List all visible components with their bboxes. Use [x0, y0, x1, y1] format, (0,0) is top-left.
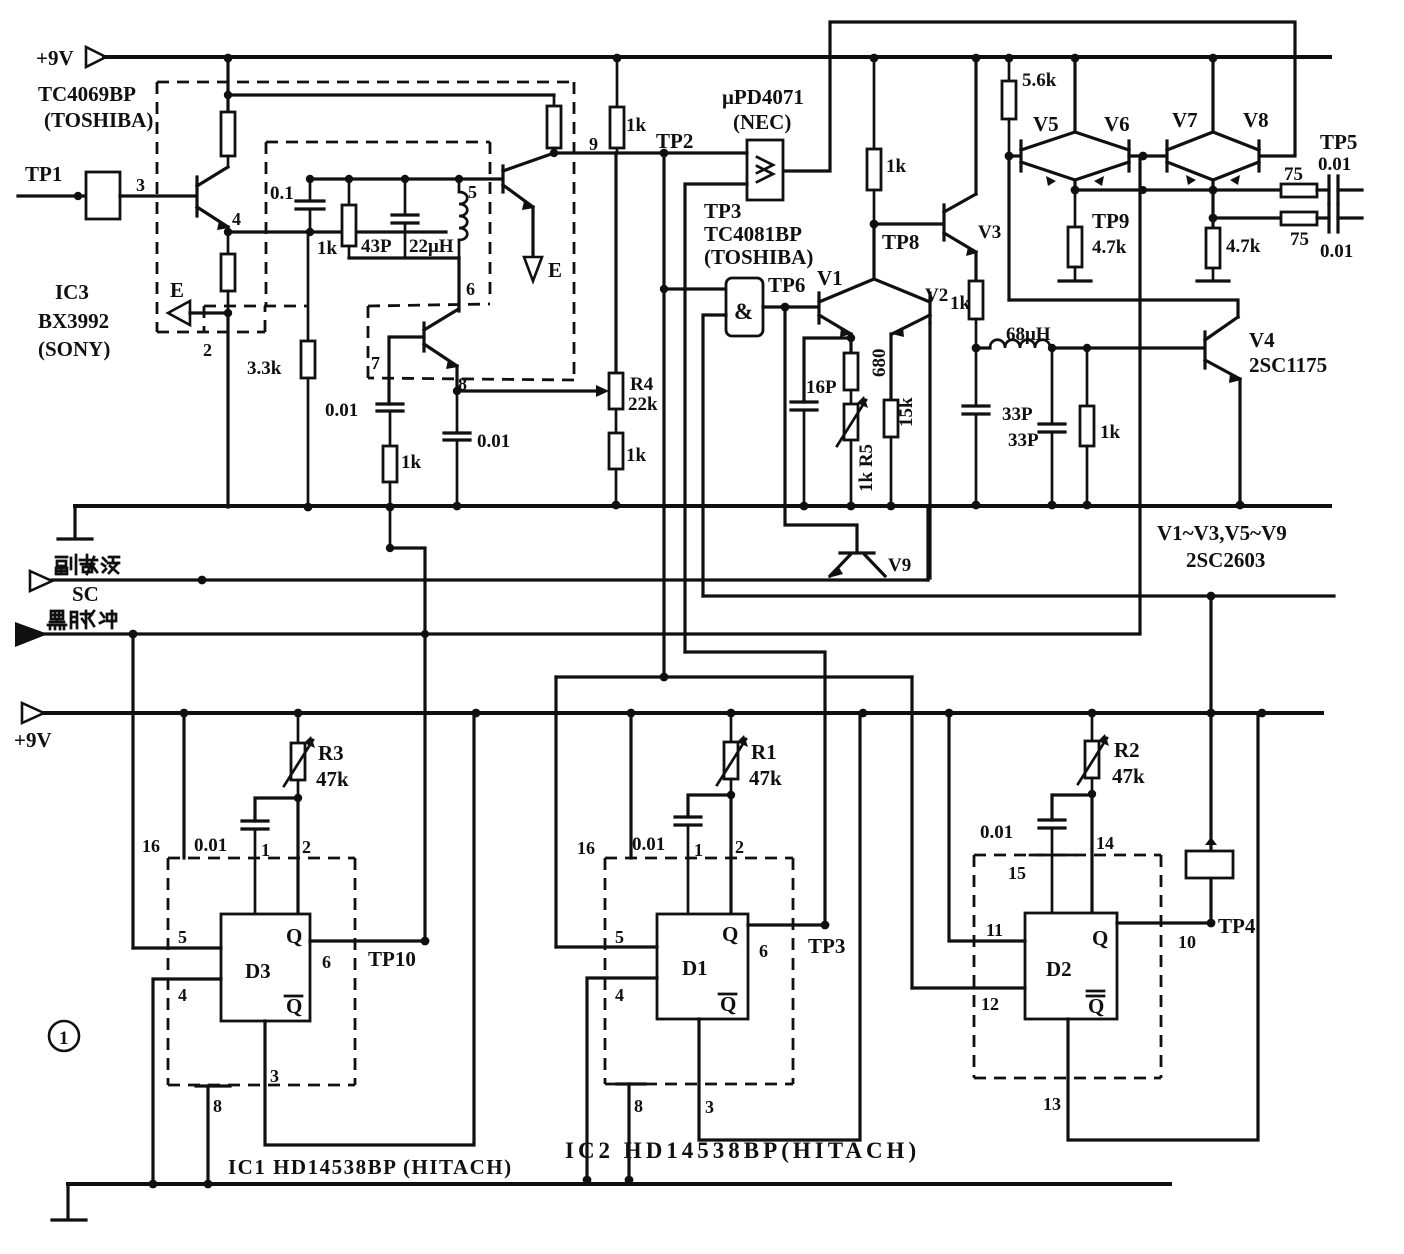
- svg-text:16P: 16P: [806, 377, 837, 398]
- node dot trigger junction: [660, 673, 669, 682]
- svg-text:5: 5: [615, 927, 624, 947]
- wire R3 junction to cap branch: [255, 798, 298, 821]
- resistor 1k near V4: [1080, 348, 1121, 505]
- wire V2 base to SC: [928, 323, 931, 578]
- wire D3 pin2: [296, 798, 299, 914]
- wire TP4 riser: [1209, 596, 1212, 923]
- wire R2 junction to cap branch: [1052, 795, 1092, 820]
- svg-text:(NEC): (NEC): [733, 110, 791, 134]
- AND gate TC4081: [726, 278, 763, 336]
- svg-text:0.01: 0.01: [1320, 241, 1353, 262]
- svg-text:14: 14: [1096, 833, 1114, 853]
- node dots on top line: [306, 175, 463, 183]
- node junction dots on +9V rail: [224, 54, 1218, 63]
- wire R4 column from TP2 line: [614, 153, 617, 373]
- wire OR-gate output loop over the top: [783, 22, 1295, 171]
- svg-text:68μH: 68μH: [1006, 324, 1051, 345]
- node dots on V4 base line: [1048, 344, 1091, 352]
- node dot on SC line: [198, 576, 207, 585]
- label TC4069BP (TOSHIBA): [38, 82, 153, 132]
- label fuzaibo (subcarrier): [56, 555, 119, 574]
- svg-text:0.01: 0.01: [325, 400, 358, 421]
- wire inv2 emitter down: [531, 207, 534, 256]
- node dot before TP1 pad: [74, 192, 82, 200]
- svg-text:5: 5: [178, 927, 187, 947]
- label TP5 / 0.01: [1318, 130, 1357, 175]
- transistor inverter2: [503, 153, 554, 210]
- node dot TP4 branch: [1207, 592, 1216, 601]
- resistor 1k at TP8 top: [867, 57, 907, 225]
- svg-text:16: 16: [577, 838, 595, 858]
- resistor emitter inv1: [221, 232, 235, 313]
- node TP10: [322, 937, 429, 972]
- svg-text:1k: 1k: [626, 115, 647, 136]
- ground under 4.7k right: [1197, 279, 1229, 282]
- svg-text:TC4081BP: TC4081BP: [704, 222, 802, 246]
- svg-text:V5: V5: [1033, 112, 1059, 136]
- svg-text:SC: SC: [72, 582, 99, 606]
- node TP4: [1178, 914, 1256, 952]
- test point pad TP1: [86, 172, 120, 219]
- transistor inverter3: [424, 310, 458, 369]
- node dot 680 top: [847, 334, 855, 342]
- wire AND output to V1 base: [763, 305, 818, 308]
- wire pin6 drop: [457, 258, 460, 311]
- node dot R1 bottom: [727, 791, 735, 799]
- wire TP8 to V3 base: [874, 222, 943, 225]
- wire 16P branch: [804, 338, 851, 402]
- svg-text:6: 6: [466, 279, 475, 299]
- resistor feedback (unlabeled) above pin9: [547, 95, 561, 157]
- svg-text:μPD4071: μPD4071: [722, 85, 804, 109]
- svg-text:1k: 1k: [401, 452, 422, 473]
- node dot gate input1 branch: [660, 285, 668, 293]
- wire V2 emitter down to 15k: [889, 334, 892, 400]
- svg-text:V8: V8: [1243, 108, 1269, 132]
- svg-text:12: 12: [981, 994, 999, 1014]
- svg-text:1k: 1k: [950, 293, 971, 314]
- node dot 15k bus: [887, 502, 896, 511]
- label TP3 TC4081BP (TOSHIBA): [704, 199, 813, 269]
- node dot D1 pin8 ground: [625, 1176, 634, 1185]
- dots on line 1: [1071, 186, 1218, 195]
- wire oscillator top node line: [310, 177, 502, 180]
- potentiometer R5 1k: [837, 396, 877, 506]
- svg-text:2: 2: [203, 340, 212, 360]
- svg-text:11: 11: [986, 920, 1003, 940]
- svg-text:13: 13: [1043, 1094, 1061, 1114]
- svg-text:TP3: TP3: [808, 934, 845, 958]
- svg-text:R1: R1: [751, 740, 777, 764]
- labels pins 14 15: [1008, 833, 1114, 883]
- wire D2 pin15 tick: [1030, 854, 1075, 857]
- wire D3 pin16: [182, 713, 185, 858]
- transistor pair V1 V2: [817, 266, 930, 337]
- node dot 2: [224, 309, 232, 317]
- wire 68uH node line: [976, 346, 990, 349]
- svg-text:47k: 47k: [316, 767, 349, 791]
- transistor V4: [1205, 317, 1327, 383]
- resistor 1k tank: [317, 179, 356, 259]
- node dot pin8 ground: [204, 1180, 213, 1189]
- svg-text:TP5: TP5: [1320, 130, 1357, 154]
- svg-text:R3: R3: [318, 741, 344, 765]
- svg-text:0.01: 0.01: [632, 834, 665, 855]
- svg-text:TP8: TP8: [882, 230, 919, 254]
- node dot 16P bus: [800, 502, 809, 511]
- wire tank bottom line: [349, 256, 459, 259]
- svg-text:1k: 1k: [886, 156, 907, 177]
- svg-text:0.01: 0.01: [980, 822, 1013, 843]
- svg-text:47k: 47k: [749, 766, 782, 790]
- +9V top terminal arrow: [36, 46, 106, 70]
- labels pins 1 2: [261, 837, 311, 860]
- inductor 68uH: [990, 324, 1051, 348]
- capacitor 43P: [361, 179, 418, 258]
- capacitor 0.01 series lower: [1317, 204, 1362, 262]
- svg-text:V9: V9: [888, 555, 911, 576]
- node dot 1k to bus: [386, 503, 395, 512]
- wire V3 collector to rail: [974, 57, 977, 194]
- wire V7V8 collector to rail: [1211, 57, 1214, 132]
- transistor V3: [944, 194, 1001, 256]
- resistor 75 upper: [1281, 164, 1317, 197]
- label V1-V3 V5-V9 2SC2603: [1157, 521, 1287, 572]
- svg-text:1k: 1k: [626, 445, 647, 466]
- svg-text:+9V: +9V: [14, 728, 52, 752]
- svg-text:Q: Q: [1088, 994, 1104, 1018]
- svg-text:3: 3: [705, 1097, 714, 1117]
- node TP6: [768, 273, 805, 311]
- wire TP2 node line to OR gate input 1: [554, 151, 747, 154]
- node dot 68uH left: [972, 344, 981, 353]
- wire TP3 feed jog from OR input2: [685, 652, 825, 925]
- svg-text:3: 3: [136, 175, 145, 195]
- node TP8: [870, 220, 920, 254]
- terminal black pulse solid arrow: [15, 622, 48, 647]
- svg-text:2: 2: [735, 837, 744, 857]
- node dot pin4 ground: [149, 1180, 158, 1189]
- wire D1 pin5 drop: [554, 677, 557, 947]
- svg-text:680: 680: [869, 349, 890, 378]
- svg-text:1k: 1k: [317, 238, 338, 259]
- svg-text:75: 75: [1290, 229, 1309, 250]
- svg-text:4.7k: 4.7k: [1226, 236, 1261, 257]
- wire V5V6 collector to rail: [1073, 57, 1076, 132]
- svg-text:(TOSHIBA): (TOSHIBA): [44, 108, 153, 132]
- wire emitter to node 4: [226, 227, 229, 232]
- wire pin 8 to R4 with arrow: [453, 385, 609, 397]
- wire output line 2: [1213, 216, 1281, 219]
- wire E to node 2: [190, 311, 228, 314]
- resistor 75 lower: [1281, 212, 1317, 250]
- node TP3: [759, 921, 845, 961]
- wire rail drop x228: [226, 57, 229, 112]
- wire AND input2: [703, 315, 726, 596]
- capacitor 16P: [791, 377, 837, 506]
- wire D2 Q output to TP4: [1117, 921, 1211, 924]
- svg-text:E: E: [170, 278, 184, 302]
- dashed box IC1 D3 half: [168, 858, 355, 1085]
- svg-text:10: 10: [1178, 932, 1196, 952]
- wire D2 pin13 loop: [1068, 713, 1258, 1140]
- capacitor 0.01 D3: [194, 821, 268, 914]
- wire D3 pin8: [196, 1086, 230, 1184]
- svg-text:16: 16: [142, 836, 160, 856]
- wire between pairs: [1129, 154, 1166, 157]
- svg-text:Q: Q: [1092, 926, 1108, 950]
- node dot 33P bus: [972, 501, 981, 510]
- svg-text:0.1: 0.1: [270, 183, 294, 204]
- node dot y95: [224, 91, 232, 99]
- wire D2 pin11: [949, 713, 1025, 941]
- svg-text:1k R5: 1k R5: [856, 444, 877, 492]
- resistor 4.7k left: [1068, 190, 1082, 281]
- svg-text:Q: Q: [286, 994, 302, 1018]
- wire inv3 base jog: [389, 337, 424, 404]
- wire V1 emitter down to 680: [849, 334, 852, 353]
- svg-text:D3: D3: [245, 959, 271, 983]
- resistor 15k: [884, 397, 917, 506]
- svg-text:TP6: TP6: [768, 273, 805, 297]
- wire inv3 emitter down to pin8 node: [455, 366, 458, 391]
- wire D1 Q output to TP3: [748, 923, 825, 926]
- node dots on node4 line: [224, 228, 314, 236]
- wire mid common bus: [75, 504, 1330, 508]
- resistor 1k under V3: [950, 281, 983, 348]
- svg-text:0.01: 0.01: [1318, 154, 1351, 175]
- node dot 33P2 bus: [1048, 501, 1057, 510]
- labels pins 1 2: [694, 837, 744, 860]
- wire V5V6 emitter down: [1073, 180, 1076, 190]
- wire black-pulse vertical x1140: [1138, 156, 1141, 632]
- resistor R4 22k: [609, 373, 658, 433]
- svg-text:TP1: TP1: [25, 162, 62, 186]
- wire top feed line y95: [228, 93, 554, 96]
- node dot R3 bottom: [294, 794, 302, 802]
- wire V9 collector stub to bus: [926, 506, 929, 580]
- IC label uPD4071 (NEC): [722, 85, 804, 134]
- wire D2 pin12: [912, 986, 1025, 989]
- wire D2 pin14: [1090, 794, 1093, 913]
- svg-text:6: 6: [322, 952, 331, 972]
- svg-text:&: &: [734, 299, 753, 324]
- terminal E down: [524, 257, 562, 282]
- wire D1 pin16: [629, 713, 632, 858]
- potentiometer R2 47k: [1078, 713, 1145, 794]
- svg-text:0.01: 0.01: [477, 431, 510, 452]
- resistor 1k above TP2 line: [610, 57, 647, 153]
- svg-text:Q: Q: [720, 992, 736, 1016]
- wire V7V8 emitter down: [1211, 180, 1214, 228]
- transistor pair V7 V8: [1167, 108, 1269, 185]
- wire V5 base stub: [1009, 154, 1020, 157]
- svg-text:2: 2: [302, 837, 311, 857]
- transistor V9: [828, 553, 911, 578]
- svg-text:43P: 43P: [361, 236, 392, 257]
- svg-text:5: 5: [468, 182, 477, 202]
- wire 68uH to V4 base: [1050, 346, 1203, 349]
- dashed box oscillator inner: [266, 142, 490, 378]
- capacitor 0.01 D1: [632, 817, 701, 914]
- dashed box IC3 outer: [157, 82, 574, 380]
- svg-text:6: 6: [759, 941, 768, 961]
- wire D1 pin3 loop: [699, 713, 860, 1140]
- svg-text:4: 4: [615, 985, 624, 1005]
- capacitor 0.01 left: [325, 400, 403, 446]
- terminal SC arrow: [30, 571, 52, 591]
- wire TP6 drop to V9 base: [785, 307, 857, 552]
- wire SC line: [52, 578, 928, 581]
- node dot R5 bus: [847, 502, 856, 511]
- node dots on black pulse line: [129, 630, 429, 639]
- wire V1V2 top to TP8: [872, 224, 875, 279]
- wire D1 pin2: [729, 795, 732, 914]
- wire D3 Q output to TP10: [310, 939, 425, 942]
- svg-text:1k: 1k: [1100, 422, 1121, 443]
- wire node2 down to bus: [226, 313, 229, 507]
- wire V3 emitter down: [974, 252, 977, 281]
- flipflop D2: [1025, 913, 1117, 1019]
- node dot 3.3k bus: [304, 503, 313, 512]
- svg-text:4: 4: [232, 209, 241, 229]
- flipflop D1: [657, 914, 748, 1019]
- svg-text:0.01: 0.01: [194, 835, 227, 856]
- capacitor 0.01 series upper: [1317, 176, 1362, 204]
- wire node 4 line: [228, 230, 446, 233]
- svg-text:R2: R2: [1114, 738, 1140, 762]
- resistor 1k under R4: [609, 433, 647, 505]
- svg-text:IC3: IC3: [55, 280, 89, 304]
- svg-text:BX3992: BX3992: [38, 309, 109, 333]
- svg-text:V7: V7: [1172, 108, 1198, 132]
- ground at bus left end: [58, 506, 92, 539]
- svg-text:47k: 47k: [1112, 764, 1145, 788]
- svg-text:2SC2603: 2SC2603: [1186, 548, 1265, 572]
- terminal E left: [168, 278, 190, 325]
- wire D3 pin3 loop: [265, 713, 474, 1145]
- node dot D1 pin4 ground: [583, 1176, 592, 1185]
- dashed box IC2 D2 half: [974, 855, 1161, 1078]
- resistor 680: [844, 349, 890, 405]
- resistor 5.6k: [1002, 57, 1057, 156]
- node dot cap to bus: [453, 502, 462, 511]
- svg-text:9: 9: [589, 134, 598, 154]
- svg-text:22k: 22k: [628, 394, 658, 415]
- svg-text:15: 15: [1008, 863, 1026, 883]
- svg-text:7: 7: [371, 353, 380, 373]
- OR gate U uPD4071: [747, 140, 783, 200]
- wire black pulse line: [44, 632, 1140, 635]
- resistor collector load inv1: [221, 112, 235, 167]
- svg-text:22μH: 22μH: [409, 236, 454, 257]
- resistor 3.3k: [247, 232, 315, 507]
- wire trigger line y677: [556, 675, 912, 678]
- capacitor 0.01 D2: [980, 820, 1065, 913]
- capacitor 0.1: [270, 179, 324, 232]
- svg-text:TC4069BP: TC4069BP: [38, 82, 136, 106]
- svg-text:33P: 33P: [1002, 404, 1033, 425]
- svg-text:33P: 33P: [1008, 430, 1039, 451]
- svg-text:TP10: TP10: [368, 947, 416, 971]
- node TP2 dot: [660, 149, 669, 158]
- capacitor 33P first: [963, 348, 1033, 505]
- wire +9V lower rail: [44, 711, 1322, 715]
- wire D3 pin4: [153, 979, 221, 1184]
- wire V4 collector line: [1009, 300, 1238, 317]
- wire D1 pin8: [617, 1084, 645, 1180]
- svg-text:4: 4: [178, 985, 187, 1005]
- svg-text:V3: V3: [978, 222, 1001, 243]
- wire D1 pin5: [556, 945, 657, 948]
- transistor pair V5 V6: [1021, 112, 1130, 186]
- svg-text:15k: 15k: [896, 397, 917, 427]
- svg-text:Q: Q: [722, 922, 738, 946]
- terminal +9V lower arrow: [14, 703, 52, 752]
- capacitor 0.01 right: [444, 391, 510, 506]
- svg-text:3.3k: 3.3k: [247, 358, 282, 379]
- wire branch to AND gate input1: [664, 287, 726, 290]
- svg-text:2SC1175: 2SC1175: [1249, 353, 1327, 377]
- svg-text:TP3: TP3: [704, 199, 741, 223]
- wire TP10 riser: [390, 548, 425, 941]
- node dot R4 chain bus: [612, 501, 621, 510]
- svg-text:4.7k: 4.7k: [1092, 237, 1127, 258]
- svg-text:8: 8: [634, 1096, 643, 1116]
- resistor 1k under 0.01: [383, 446, 422, 548]
- svg-text:TP9: TP9: [1092, 209, 1129, 233]
- wire OR gate input 2 jog: [685, 184, 747, 652]
- svg-text:E: E: [548, 258, 562, 282]
- wire gate2 output line y596: [703, 594, 1334, 597]
- inductor 22uH: [409, 179, 467, 258]
- ground at bottom left: [52, 1184, 86, 1220]
- svg-text:D2: D2: [1046, 957, 1072, 981]
- resistor 4.7k right: [1206, 228, 1261, 281]
- node dot V4 emitter bus: [1236, 501, 1245, 510]
- svg-text:(TOSHIBA): (TOSHIBA): [704, 245, 813, 269]
- dashed box IC2 D1 half: [605, 858, 793, 1084]
- wire +9V top rail: [104, 55, 1330, 59]
- svg-text:8: 8: [213, 1096, 222, 1116]
- node dot 1k bus: [1083, 501, 1092, 510]
- node dots on +9V lower rail: [180, 709, 1267, 718]
- potentiometer R3 47k: [284, 713, 349, 798]
- wire R1 junction to cap branch: [688, 795, 731, 817]
- svg-text:V1: V1: [817, 266, 843, 290]
- svg-text:TP4: TP4: [1218, 914, 1256, 938]
- wire emitters output line 1: [1075, 188, 1281, 191]
- svg-text:V4: V4: [1249, 328, 1275, 352]
- node dot R2 bottom: [1088, 790, 1096, 798]
- svg-text:V6: V6: [1104, 112, 1130, 136]
- svg-text:V1~V3,V5~V9: V1~V3,V5~V9: [1157, 521, 1287, 545]
- svg-text:R4: R4: [630, 374, 654, 395]
- label TP9 4.7k: [1092, 209, 1129, 258]
- wire bottom ground bus: [68, 1182, 1170, 1186]
- svg-text:IC2 HD14538BP(HITACH): IC2 HD14538BP(HITACH): [565, 1138, 920, 1163]
- wire D1 pin4: [587, 978, 657, 1180]
- svg-text:+9V: +9V: [36, 46, 74, 70]
- node dot mid pairs: [1139, 152, 1148, 161]
- test point pad TP4: [1186, 837, 1233, 878]
- wire 5.6k node down to V4 collector line: [1007, 156, 1010, 300]
- wire D2 pin12 drop: [910, 677, 913, 988]
- transistor inverter1: [197, 167, 229, 230]
- symbol circled 1: [49, 1021, 79, 1051]
- wire TP2 vertical to gate input1 then pin5 line: [662, 153, 665, 677]
- wire D3 pin5: [133, 946, 221, 949]
